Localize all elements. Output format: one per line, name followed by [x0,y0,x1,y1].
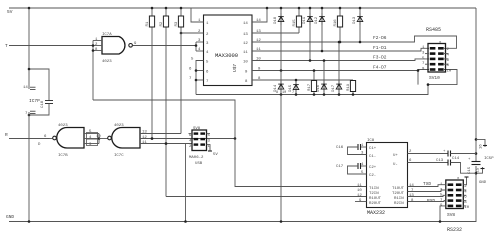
wire R to IC7B bubble [50,138,53,140]
svg-text:12: 12 [357,194,362,198]
svg-text:4023: 4023 [58,124,68,128]
capacitor C15 [472,161,481,163]
wire 5V rail [9,7,476,9]
svg-text:D12: D12 [315,16,319,24]
svg-text:5V: 5V [213,153,218,157]
svg-text:11: 11 [142,141,147,145]
svg-text:4023: 4023 [114,124,124,128]
svg-text:10: 10 [96,135,101,139]
wire MAX232 pin14 to SV9 pin1 [408,185,446,187]
svg-text:SV8: SV8 [447,212,455,218]
wire GND rail [9,173,476,221]
svg-text:IC5P: IC5P [484,157,494,161]
svg-text:D17: D17 [332,84,336,92]
svg-text:T1IN: T1IN [369,187,379,191]
wire row pin10 F3-D2 [252,59,429,61]
wire U$7 pin14 to 5V rail [252,8,267,22]
wire SV10 stub pin4 [444,53,449,55]
junction R3 net pin2 [180,32,183,35]
svg-text:RS485: RS485 [426,27,441,33]
wire IC7A output to U$7 pins 3/4 [133,45,197,47]
junction F4 [417,69,420,72]
svg-text:F4-D7: F4-D7 [373,65,387,71]
resistor R2 pullup column x166 [165,8,167,197]
diode D17 clamp bottom [338,42,340,95]
svg-text:10: 10 [282,91,286,95]
svg-text:D11: D11 [303,16,307,24]
junction pin11/R2 [165,142,168,145]
diode D13 clamp top [359,8,361,42]
wire IC7A net down and right [93,100,235,139]
wire T net [9,45,93,47]
svg-text:D18: D18 [274,16,278,24]
junction IC7A pin8 [92,49,95,52]
svg-text:R1OUT: R1OUT [369,197,382,201]
wire U$7 pin2 to R3 column [181,32,204,34]
wire F4 junction drop [417,71,419,85]
junction pin12/R1 [151,137,154,140]
capacitor C14 with wire from pin2 [408,153,449,155]
resistor R19 bottom [352,80,354,95]
wire SV9 stub pin4 [463,189,466,191]
svg-text:D16: D16 [317,84,321,92]
wire bracket U$7 pins 5,6,7 [196,61,204,95]
svg-text:F1-D1: F1-D1 [373,45,387,51]
svg-text:MAX232: MAX232 [367,210,385,216]
svg-text:10: 10 [447,69,452,73]
svg-text:14: 14 [409,184,414,188]
nand gate IC7B mirrored [57,128,84,149]
svg-text:16: 16 [480,144,484,149]
svg-text:R15: R15 [293,19,297,27]
wire 5V drop to IC7P pin 14 [28,8,30,89]
connector SV9 RS232 [446,180,464,209]
svg-text:SV10: SV10 [429,75,440,81]
wire x166 down to MAX232 pin12 [166,196,367,198]
wire IC7B input tie bracket [98,134,100,144]
svg-text:T2OUT: T2OUT [392,192,405,196]
svg-text:11: 11 [357,184,362,188]
wire U$7 pin1 to 5V rail [191,8,204,22]
svg-text:R1: R1 [146,21,150,26]
svg-text:C16: C16 [336,146,344,150]
svg-text:T1OUT: T1OUT [392,187,405,191]
svg-text:GND: GND [6,214,14,220]
svg-text:MA06-2: MA06-2 [189,156,204,160]
svg-text:C1-: C1- [369,155,376,159]
wire x235 down to MAX232 pin11 [235,139,367,187]
junction GND corner [475,172,478,175]
junction at (29,69) [28,68,31,71]
svg-text:R1IN: R1IN [394,197,404,201]
junction C14 net [475,152,478,155]
wire MAX232 pin8 to SV9 pin7 [408,200,446,203]
wire bracket pins 3-4 of U$7 [195,42,197,51]
wire MAX232 pin13 to SV9 pin5 [408,195,446,196]
svg-text:4023: 4023 [102,60,112,64]
junction pin7 [195,79,198,82]
svg-text:R2: R2 [160,21,164,26]
5V vertical right side [475,8,477,162]
wire SV10 stub pin8 [444,63,449,65]
capacitor C13 with wire from pin6 [408,162,449,164]
svg-text:IC7B: IC7B [58,154,68,158]
wire jog to C18 top [29,69,49,101]
wire R net [9,138,50,140]
nand gate IC7A [102,37,125,55]
svg-text:USB: USB [195,162,203,166]
svg-text:C1+: C1+ [369,147,377,151]
wire SV8 pin1 to 5V stub [207,145,211,151]
wire IC7C pin13 to R3 column [140,133,181,135]
svg-text:T2IN: T2IN [369,192,379,196]
resistor R1 pullup column x152 [151,8,153,139]
svg-text:R: R [5,132,8,138]
wire C18 bottom to GND column [29,104,49,116]
resistor R17 bottom [313,71,315,95]
diode D18 clamp top [280,8,282,71]
wire long drop x281 to GND [280,95,282,222]
svg-text:C17: C17 [336,165,344,169]
svg-text:C18: C18 [41,100,45,108]
svg-text:RS232: RS232 [447,227,462,233]
svg-text:T: T [5,43,8,49]
junction at (29,115) [28,114,31,117]
wire SV8 stub pin5 [207,133,211,135]
junction pin12 x235 [234,137,237,140]
wire IC7A input bracket [92,41,94,101]
svg-text:C2+: C2+ [369,166,377,170]
svg-text:C14: C14 [452,157,460,161]
wire SV8 stub pin6 [189,133,193,135]
wire tie to IC7C output [99,138,108,140]
svg-text:10: 10 [464,206,469,210]
svg-text:7: 7 [292,91,294,95]
wire row pin9 F4-D7 [252,70,429,71]
wire row pin13 [252,32,299,34]
resistor R3 pullup column x181 [180,8,182,134]
wire SV10 stub pin7 [425,63,429,65]
svg-text:R2OUT: R2OUT [369,202,382,206]
wire IC7B input stubs [84,133,99,135]
svg-text:IC7P: IC7P [29,98,40,104]
wire SV10 stub pin3 [425,53,429,55]
wire SV8 pin2 to GND [185,144,187,222]
diode D11 clamp top [309,8,311,61]
wire SV9 pin9 to GND rail [440,206,446,222]
svg-text:10: 10 [357,189,362,193]
junction at (196,45.5) [195,44,198,47]
junction IC7A pin2 [92,44,95,47]
svg-text:IC7C: IC7C [114,154,124,158]
wire MAX232 pin7 to SV9 pin3 [408,190,446,192]
svg-text:15: 15 [477,167,481,172]
svg-text:R2IN: R2IN [394,202,404,206]
junction pin6 [195,69,198,72]
resistor R16 top [339,8,341,42]
nand gate IC7C mirrored [112,128,140,149]
svg-text:C2-: C2- [369,174,376,178]
wire SV9 stub pin6 [463,194,466,196]
wire row pin12 F2-D6 [252,36,457,48]
diode D16 clamp bottom [323,61,325,95]
svg-text:12: 12 [243,42,248,46]
wire IC7P pin7 to GND [28,112,30,222]
power IC5P pin15 bracket [476,167,483,173]
svg-text:5V: 5V [7,9,13,15]
wire IC7C pin11 net [140,143,192,145]
wire MAX232 pin9 stub [355,201,367,203]
diode D14 clamp bottom [280,71,282,95]
resistor R15 top [298,8,300,33]
svg-text:R19: R19 [347,83,351,91]
svg-text:D13: D13 [353,16,357,24]
junction rail x267 [266,7,269,10]
svg-text:U-: U- [393,163,398,167]
svg-text:R17: R17 [308,83,312,91]
svg-text:13: 13 [243,33,248,37]
junction V16 [475,138,478,141]
svg-text:11: 11 [243,51,248,55]
junction on 84.6 line [427,83,430,86]
svg-text:U+: U+ [393,154,398,158]
svg-text:10: 10 [243,61,248,65]
svg-text:F2-D6: F2-D6 [373,35,387,41]
junction on 5V rail at x29 [28,7,31,10]
wire common line from pins 5-7 to right [196,70,457,95]
svg-text:U$7: U$7 [232,64,238,72]
wire SV9 stub pin8 [463,200,466,202]
svg-text:8: 8 [276,91,278,95]
wire SV9 pin2 to GND symbol [463,177,466,185]
svg-text:R3: R3 [175,21,179,26]
svg-text:GND: GND [479,181,487,185]
IC U$7 MAX3000 body [204,15,253,86]
diode D15 clamp bottom [295,80,297,95]
svg-text:RXD: RXD [427,198,435,204]
svg-text:MAX3000: MAX3000 [215,52,238,59]
wire SV10 stub pin6 [444,58,449,60]
svg-text:12: 12 [142,136,147,140]
wire row pin8 [252,79,353,81]
svg-text:R16: R16 [334,19,338,27]
power IC5P pin16 bracket [476,139,485,147]
svg-text:IC7A: IC7A [102,33,112,37]
diode D12 clamp top [321,8,323,51]
svg-text:14: 14 [243,22,248,26]
junction GND at x29 [28,220,31,223]
svg-text:13: 13 [409,194,414,198]
wire SV9 stub pin10 [463,205,466,207]
svg-text:F3-D2: F3-D2 [373,55,387,61]
svg-text:14: 14 [23,86,28,90]
wire IC7C pin12 net [140,138,235,140]
capacitor C18 [45,100,53,102]
wire row pin11 F1-D1 [252,48,429,51]
svg-text:C13: C13 [436,159,444,163]
